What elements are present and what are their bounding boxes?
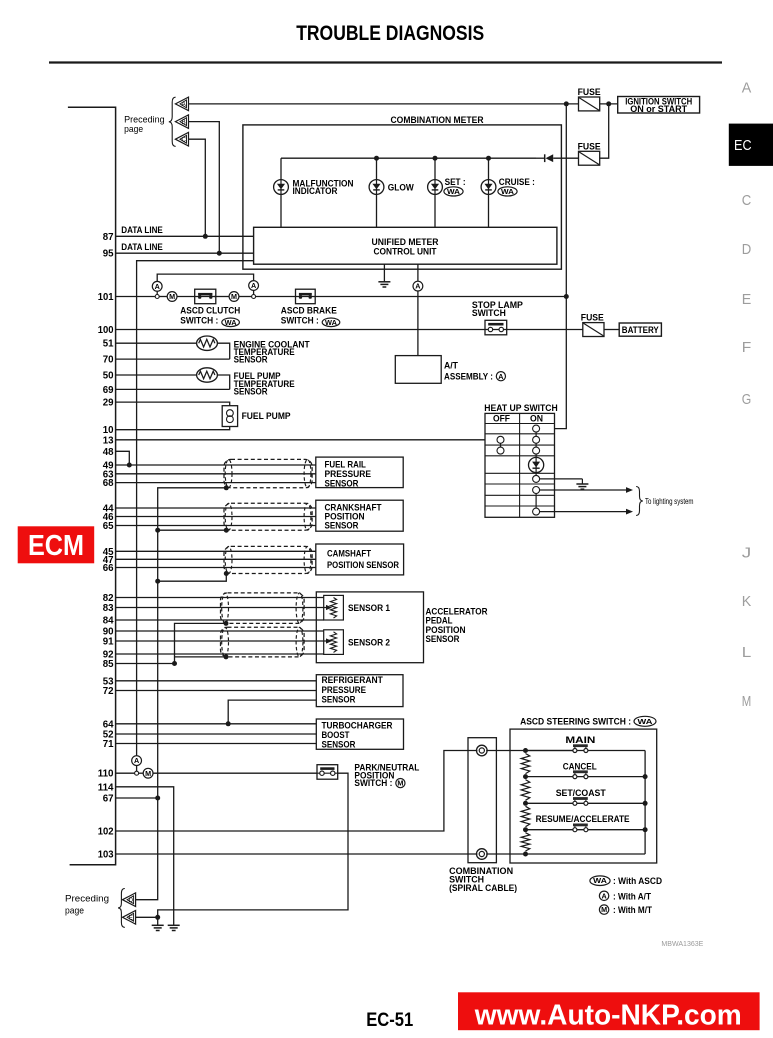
E node ground stub	[157, 917, 159, 925]
cruise lamp	[481, 180, 496, 195]
svg-text:RESUME/ACCELERATE: RESUME/ACCELERATE	[536, 814, 631, 825]
junction set	[433, 156, 438, 161]
steering chain node bottom	[523, 852, 528, 857]
wire pin 53	[116, 680, 317, 682]
fuse F3	[583, 323, 604, 337]
junction resume right	[643, 827, 648, 832]
svg-text:K: K	[742, 594, 752, 610]
ground (pin 114)	[168, 924, 180, 926]
shield (camshaft sensor cable)	[224, 546, 312, 573]
wire triangle E to node	[136, 916, 158, 918]
wire pin 46	[116, 516, 316, 518]
svg-text:SENSOR: SENSOR	[322, 740, 356, 751]
A/T assembly circle A	[496, 372, 505, 381]
heat up ON contact 478.9	[533, 475, 540, 482]
svg-text:M: M	[169, 292, 175, 301]
svg-text:ON: ON	[530, 414, 543, 425]
svg-text:HEAT UP SWITCH: HEAT UP SWITCH	[484, 403, 557, 414]
wire from B to data line 95	[189, 122, 220, 254]
crank drain wire	[158, 529, 227, 531]
wire 101 segment d	[239, 296, 252, 298]
svg-text:A: A	[134, 756, 139, 765]
heat up ON contact 428.6	[533, 425, 540, 432]
svg-text:M: M	[145, 769, 151, 778]
wire pin 29	[116, 402, 230, 406]
wire pin 70	[116, 358, 230, 360]
wire pin 114 to ground	[116, 787, 174, 925]
wire pin 13 to heat up switch	[116, 439, 498, 441]
svg-text:FUSE: FUSE	[581, 313, 605, 324]
svg-text:G: G	[742, 392, 752, 408]
wire pin 63	[116, 473, 316, 475]
junction C on line 87	[203, 234, 208, 239]
svg-text:A: A	[155, 282, 160, 291]
junction ignition feed	[564, 101, 569, 106]
wire 101 to ignition vertical	[315, 296, 567, 298]
accel shield 2 drain	[175, 656, 227, 658]
accel shield drains to pin 85	[175, 623, 227, 663]
heat up switch table	[485, 413, 555, 517]
connector M on 101 right	[229, 292, 239, 302]
svg-text:65: 65	[103, 521, 114, 532]
set WA oval	[444, 187, 463, 196]
refrigerant third wire	[228, 700, 316, 724]
unified meter ground lead	[383, 264, 385, 281]
ASCD steering switch box	[510, 729, 657, 863]
svg-text:29: 29	[103, 398, 114, 409]
main row wire	[526, 750, 646, 752]
heat up OFF chain link	[500, 443, 502, 447]
wire pin 83	[116, 607, 328, 609]
wire spiral top to main node	[486, 750, 573, 752]
setcoast switch	[573, 801, 577, 805]
fuse F1	[579, 97, 600, 111]
A/T assembly box	[395, 356, 441, 384]
svg-text:SENSOR: SENSOR	[234, 355, 268, 366]
svg-text:SENSOR: SENSOR	[426, 634, 460, 645]
bypass right link	[253, 290, 255, 294]
svg-text:C: C	[181, 136, 186, 143]
connector triangle E	[123, 911, 136, 925]
set branch	[434, 158, 436, 227]
svg-text:SWITCH: SWITCH	[472, 308, 506, 319]
svg-text:48: 48	[103, 447, 114, 458]
park neutral position switch symbol	[317, 765, 338, 780]
svg-text:C: C	[742, 193, 752, 209]
svg-text:POSITION SENSOR: POSITION SENSOR	[327, 560, 399, 571]
ASCD brake switch symbol	[296, 289, 316, 304]
cancel switch	[573, 775, 577, 779]
svg-text:CAMSHAFT: CAMSHAFT	[327, 548, 371, 559]
shield drain junction accel 2	[224, 654, 229, 659]
connector triangle A	[175, 97, 188, 111]
svg-text:66: 66	[103, 563, 114, 574]
connector M on 110	[143, 768, 153, 778]
wire pin 100	[116, 329, 485, 331]
svg-text:ASCD STEERING SWITCH :: ASCD STEERING SWITCH :	[520, 717, 631, 728]
svg-text:101: 101	[98, 292, 114, 303]
brace to lighting system	[636, 487, 643, 516]
A/T bus link	[136, 766, 138, 772]
svg-text:J: J	[742, 546, 752, 562]
engine coolant temp sensor symbol	[197, 336, 218, 350]
wire pin 66	[116, 567, 316, 569]
heat up ground stub	[581, 479, 583, 484]
heat up ON contact 490.0	[533, 487, 540, 494]
wire fuse F2 to combination meter diode	[553, 157, 578, 159]
unified meter control unit box	[254, 227, 557, 264]
svg-text:M: M	[397, 779, 403, 788]
ground (unified meter)	[378, 281, 390, 283]
svg-text:SENSOR: SENSOR	[325, 478, 359, 489]
svg-text:E: E	[129, 915, 133, 922]
svg-text:TROUBLE DIAGNOSIS: TROUBLE DIAGNOSIS	[296, 22, 484, 45]
heat up ON contact 450.6	[533, 447, 540, 454]
svg-text:WA: WA	[225, 320, 237, 327]
sensor 2 box	[324, 630, 344, 655]
ECM bus line	[68, 107, 116, 865]
camshaft position sensor box	[316, 544, 404, 575]
wire pin 44	[116, 507, 316, 509]
svg-text:ASSEMBLY :: ASSEMBLY :	[444, 372, 493, 383]
shield drain junction accel 1	[224, 621, 229, 626]
wiper arrow sensor 2	[326, 638, 332, 643]
diode at combination meter feed	[546, 154, 554, 162]
wire from C to data line 87	[189, 139, 206, 236]
sidebar tab EC (active)	[729, 124, 773, 166]
connector circle A (meter to A/T)	[413, 281, 423, 291]
svg-text:87: 87	[103, 232, 114, 243]
svg-text:FUEL PUMP: FUEL PUMP	[242, 411, 292, 422]
spiral cable terminal bottom	[477, 849, 488, 860]
svg-text:WA: WA	[638, 719, 653, 726]
connector circle on 101 right	[252, 295, 256, 299]
set lamp	[428, 180, 443, 195]
wire fuse F3 to battery	[604, 329, 619, 331]
connector triangle C	[175, 132, 188, 146]
junction E node	[155, 915, 160, 920]
svg-text:GLOW: GLOW	[388, 182, 415, 193]
svg-text:A/T: A/T	[444, 361, 458, 372]
svg-text:A: A	[742, 80, 752, 96]
fuel pump symbol	[227, 410, 234, 417]
wire sensor to bracket 51/70	[217, 343, 230, 359]
ground (heat up switch)	[576, 483, 588, 485]
wire pin 48 jog	[116, 451, 130, 465]
heat up ON contact 511.6	[533, 508, 540, 515]
svg-text:70: 70	[103, 355, 114, 366]
junction cancel right	[643, 774, 648, 779]
wire pin 69	[116, 388, 230, 390]
svg-text:84: 84	[103, 616, 114, 627]
accelerator pedal sensor outer box	[316, 592, 423, 663]
svg-text:OFF: OFF	[493, 414, 510, 425]
heat up switch ground wire	[539, 478, 582, 480]
park neutral circle M	[396, 779, 405, 788]
junction drain bus cam	[155, 579, 160, 584]
ASCD steering title WA oval	[634, 716, 656, 726]
main switch	[573, 749, 577, 753]
svg-text:CANCEL: CANCEL	[563, 762, 597, 773]
svg-text:100: 100	[98, 325, 114, 336]
sensor 1 box	[324, 595, 344, 620]
shield (crankshaft sensor cable)	[224, 503, 312, 530]
svg-text:SENSOR: SENSOR	[322, 695, 356, 706]
ignition switch box	[618, 97, 700, 114]
svg-text:103: 103	[98, 850, 114, 861]
svg-text:EC-51: EC-51	[366, 1010, 413, 1031]
svg-text:69: 69	[103, 385, 114, 396]
svg-text:50: 50	[103, 371, 114, 382]
junction 48/49	[127, 463, 132, 468]
wire pin 51	[116, 342, 197, 344]
junction B on line 95	[217, 251, 222, 256]
wire 101 segment	[159, 296, 167, 298]
svg-text:To lighting system: To lighting system	[645, 497, 694, 506]
svg-text:: With M/T: : With M/T	[613, 905, 652, 916]
spiral cable terminal top	[477, 745, 488, 756]
svg-text:SET/COAST: SET/COAST	[556, 788, 606, 799]
steering chain node resume	[523, 827, 528, 832]
svg-text:51: 51	[103, 339, 114, 350]
svg-text:ECM: ECM	[28, 530, 84, 562]
heat up switch column divider	[519, 413, 521, 517]
wire stop lamp to fuse F3	[506, 329, 583, 331]
wire 101 segment c	[214, 296, 229, 298]
junction pin 67 drain bus	[155, 796, 160, 801]
wire 101 segment b	[177, 296, 194, 298]
ASCD clutch WA oval	[222, 318, 240, 327]
heat up OFF contact 450.6	[497, 447, 504, 454]
lighting wire 2	[539, 511, 627, 513]
ASCD clutch switch symbol	[195, 289, 216, 304]
heat up ON contact 439.8	[533, 436, 540, 443]
wire pin 110 c	[153, 772, 317, 774]
svg-text:DATA LINE: DATA LINE	[121, 242, 163, 253]
svg-text:ON or START: ON or START	[630, 104, 687, 114]
svg-text:Preceding: Preceding	[65, 893, 109, 904]
wire pin 92	[116, 653, 324, 655]
heat up OFF contact 439.8	[497, 436, 504, 443]
svg-text:102: 102	[98, 827, 114, 838]
fuel rail pressure sensor box	[316, 457, 403, 488]
resume switch	[573, 828, 577, 832]
wire ignition junction down to fuse F2	[600, 104, 609, 158]
shield (accel sensor 1 cable)	[221, 593, 305, 624]
svg-text:85: 85	[103, 659, 114, 670]
shield drain junction (fuel rail)	[224, 485, 229, 490]
svg-text:13: 13	[103, 435, 114, 446]
wire pin 85	[116, 663, 175, 665]
resume row wire	[526, 829, 646, 831]
bypass left link	[156, 291, 158, 294]
shield drain junction (camshaft)	[224, 571, 229, 576]
park neutral return wire	[158, 773, 348, 917]
wire pin 50	[116, 374, 197, 376]
svg-text:91: 91	[103, 637, 114, 648]
ASCD clutch bypass wire	[157, 274, 253, 281]
svg-text:WA: WA	[501, 189, 514, 196]
junction cruise	[486, 156, 491, 161]
wire pin 47	[116, 558, 316, 560]
svg-text:71: 71	[103, 739, 114, 750]
svg-text:F: F	[742, 340, 752, 356]
svg-text:D: D	[742, 242, 752, 258]
heat up switch lamp diode	[529, 457, 544, 472]
connector circle A bypass right	[249, 281, 259, 291]
battery box	[619, 323, 661, 336]
wire pin 90	[116, 630, 324, 632]
svg-text:EC: EC	[734, 137, 752, 154]
fuel pump temp sensor symbol	[197, 368, 218, 382]
wire pin 101	[116, 296, 156, 298]
svg-text:B: B	[182, 119, 186, 126]
svg-text:WA: WA	[593, 878, 607, 885]
wire from A to ignition feed	[189, 103, 579, 105]
svg-text:SENSOR 1: SENSOR 1	[348, 603, 391, 614]
junction glow	[374, 156, 379, 161]
svg-text:: With A/T: : With A/T	[613, 891, 651, 902]
wire pin 10	[116, 427, 230, 430]
steering resistor chain r2	[521, 780, 530, 801]
crankshaft position sensor box	[316, 500, 403, 531]
fuse F2	[579, 151, 600, 165]
svg-text:A: A	[498, 372, 503, 381]
svg-text:MBWA1363E: MBWA1363E	[661, 939, 703, 948]
junction pin 85 drain	[172, 661, 177, 666]
fuel pump box	[222, 406, 237, 427]
connector triangle D	[123, 893, 136, 907]
svg-text:D: D	[129, 897, 134, 904]
shield drain bus	[136, 488, 227, 900]
wire pin 72	[116, 690, 317, 692]
wire pin 95 data line	[116, 252, 254, 254]
wire pin 91	[116, 640, 328, 642]
steering chain node setcoast	[523, 801, 528, 806]
footer banner	[458, 992, 760, 1030]
svg-text:SWITCH :: SWITCH :	[180, 315, 218, 326]
svg-text:M: M	[231, 292, 237, 301]
combination meter box	[243, 125, 562, 269]
svg-text:L: L	[742, 645, 752, 661]
wire pin 84	[116, 619, 324, 621]
wire pin 102	[116, 751, 478, 832]
svg-text:FUSE: FUSE	[578, 142, 602, 153]
heat up switch row lines	[485, 423, 555, 425]
wire spiral bottom row	[486, 853, 645, 855]
wire fuse F1 to ignition switch	[600, 103, 618, 105]
svg-text:E: E	[742, 292, 752, 308]
junction drain bus crank	[155, 528, 160, 533]
wire pin 49	[116, 464, 316, 466]
stop lamp switch symbol	[485, 320, 507, 335]
svg-text:67: 67	[103, 794, 114, 805]
svg-text:A: A	[601, 891, 606, 900]
svg-text:68: 68	[103, 478, 114, 489]
shield (fuel rail sensor cable)	[224, 459, 312, 487]
malfunction indicator lamp	[274, 180, 289, 195]
wire 101 segment e	[256, 296, 296, 298]
svg-text:72: 72	[103, 686, 114, 697]
wire unified meter to A/T bus	[137, 261, 254, 756]
refrigerant pressure sensor box	[316, 675, 403, 707]
svg-text:SENSOR: SENSOR	[325, 521, 359, 532]
junction refrigerant supply	[226, 721, 231, 726]
steering resistor chain r1	[521, 754, 530, 774]
wire pin 68	[116, 482, 316, 484]
cancel row wire	[526, 776, 646, 778]
wire A circle to A/T assembly	[417, 291, 419, 356]
wire sensor to bracket 50/69	[217, 375, 230, 389]
steering chain node main	[523, 748, 528, 753]
sensor 2 potentiometer	[330, 632, 336, 653]
wire pin 87 data line	[116, 235, 254, 237]
glow lamp	[369, 180, 384, 195]
connector triangle B	[175, 115, 188, 129]
wire pin 103	[116, 853, 478, 855]
junction 101 ignition vertical	[564, 294, 569, 299]
svg-text:A: A	[415, 282, 420, 291]
wire pin 110 a	[116, 772, 135, 774]
connector circle on 110	[135, 771, 139, 775]
svg-text:COMBINATION METER: COMBINATION METER	[391, 115, 484, 126]
title rule	[49, 61, 722, 63]
wire pin 64	[116, 723, 317, 725]
steering right bus	[644, 751, 646, 855]
steering resistor chain r4	[521, 833, 530, 851]
svg-text:DATA LINE: DATA LINE	[121, 225, 163, 236]
svg-text:WA: WA	[447, 189, 460, 196]
ignition feed vertical to heat up switch	[539, 104, 566, 429]
unified meter output to A/T	[417, 264, 419, 281]
lighting wire 1	[539, 489, 627, 491]
sensor 1 potentiometer	[330, 598, 336, 619]
legend M circle	[599, 905, 608, 914]
svg-text:95: 95	[103, 249, 114, 260]
wire pin 67	[116, 797, 158, 799]
ground (E node)	[152, 924, 164, 926]
svg-text:A: A	[251, 281, 256, 290]
svg-text:83: 83	[103, 603, 114, 614]
svg-text:MAIN: MAIN	[565, 735, 595, 746]
svg-text:www.Auto-NKP.com: www.Auto-NKP.com	[474, 999, 742, 1031]
wire pin 65	[116, 525, 316, 527]
cruise WA oval	[498, 187, 517, 196]
svg-text:WA: WA	[325, 320, 337, 327]
svg-text:114: 114	[98, 782, 114, 793]
steering chain node cancel	[523, 774, 528, 779]
ASCD brake WA oval	[322, 318, 340, 327]
connector circle A bypass left	[152, 281, 162, 291]
svg-text:110: 110	[98, 769, 114, 780]
malfunction indicator branch	[280, 158, 282, 227]
glow branch	[376, 158, 378, 227]
svg-text:SENSOR: SENSOR	[234, 387, 268, 398]
cam drain wire	[158, 574, 227, 582]
svg-text:SWITCH :: SWITCH :	[281, 315, 319, 326]
svg-text:page: page	[124, 124, 143, 135]
turbocharger boost sensor box	[316, 719, 403, 749]
svg-text:(SPIRAL CABLE): (SPIRAL CABLE)	[449, 883, 517, 894]
wire pin 45	[116, 550, 316, 552]
svg-text:: With ASCD: : With ASCD	[613, 876, 662, 887]
wire pin 82	[116, 597, 324, 599]
combination switch spiral cable box	[468, 738, 496, 863]
shield (accel sensor 2 cable)	[221, 627, 305, 657]
brace (bottom preceding page)	[118, 889, 125, 928]
wire pin 110 b	[139, 772, 144, 774]
wire pin 71	[116, 743, 317, 745]
